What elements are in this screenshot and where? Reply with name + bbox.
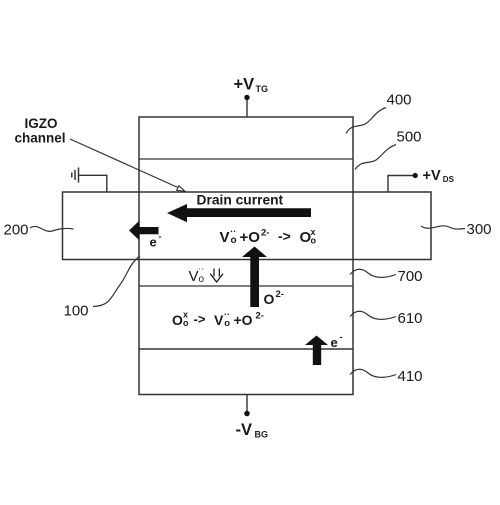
svg-text:200: 200 [4, 222, 29, 239]
node top gate terminal [244, 95, 249, 100]
svg-text:e: e [150, 235, 157, 250]
arrowhead IGZO leader [177, 186, 185, 192]
svg-text:··: ·· [198, 264, 204, 274]
channel body rect 100 [63, 192, 432, 260]
wire leader 300 [421, 226, 465, 229]
equation Oox -> Vo''+O2- [172, 310, 264, 330]
wire [139, 285, 353, 287]
svg-text:TG: TG [256, 84, 269, 94]
svg-text:Drain current: Drain current [197, 193, 284, 208]
bottom gate wire [246, 395, 248, 413]
svg-text:IGZO: IGZO [25, 116, 58, 131]
svg-text:o: o [224, 318, 230, 329]
svg-text:610: 610 [398, 310, 423, 327]
wire leader 700 [350, 269, 396, 277]
svg-text:V: V [189, 268, 199, 285]
wire leader 500 [355, 145, 396, 170]
svg-text:2-: 2- [276, 289, 284, 300]
svg-text:o: o [199, 274, 205, 285]
svg-text:700: 700 [398, 268, 423, 285]
node drain terminal [413, 173, 418, 178]
source ground wire [79, 175, 107, 192]
svg-text:100: 100 [64, 303, 89, 320]
svg-text:V: V [220, 229, 230, 246]
svg-text:+V: +V [423, 168, 441, 184]
O2- up arrow [242, 247, 267, 308]
svg-text:410: 410 [398, 368, 423, 385]
svg-text:+O: +O [234, 312, 253, 328]
electron arrow (up) [305, 336, 328, 366]
equation Vo'' down [189, 264, 205, 286]
svg-text:400: 400 [387, 92, 412, 109]
wire leader 200 [30, 226, 74, 231]
svg-text:-: - [340, 332, 343, 342]
svg-text:V: V [214, 312, 224, 328]
svg-text:-V: -V [236, 421, 253, 439]
wire leader IGZO channel [70, 139, 179, 188]
svg-text:channel: channel [14, 131, 65, 146]
top gate wire [246, 98, 248, 117]
wire leader 610 [350, 311, 396, 319]
gate stack outline (layers 400/500/700/610/410) [139, 117, 353, 395]
svg-text:+V: +V [234, 76, 255, 94]
svg-text:2-: 2- [261, 228, 269, 239]
svg-text:o: o [231, 235, 237, 246]
svg-text:e: e [331, 335, 338, 350]
svg-text:o: o [311, 236, 317, 246]
svg-text:300: 300 [467, 221, 492, 238]
wire [139, 348, 353, 350]
svg-text:DS: DS [443, 175, 455, 184]
svg-text:2-: 2- [256, 311, 264, 322]
down double arrow [210, 269, 223, 283]
equation Vo''+O2- -> Oox [220, 227, 317, 247]
svg-text:BG: BG [255, 430, 269, 440]
svg-text:-: - [159, 232, 162, 242]
svg-text:O: O [264, 291, 275, 307]
wire [139, 158, 353, 160]
ground [72, 168, 79, 183]
svg-text:->: -> [278, 228, 291, 244]
svg-text:O: O [172, 312, 183, 328]
drain current arrow [167, 204, 311, 222]
drain wire [388, 176, 413, 193]
svg-text:500: 500 [397, 129, 422, 146]
svg-text:->: -> [194, 312, 206, 327]
electron arrow (left) [129, 221, 159, 241]
wire leader 400 [346, 108, 386, 134]
wire leader 100 [93, 256, 140, 307]
wire leader 410 [350, 369, 396, 377]
node bottom gate terminal [244, 411, 250, 417]
svg-text:o: o [183, 318, 189, 328]
svg-text:+O: +O [240, 229, 261, 246]
